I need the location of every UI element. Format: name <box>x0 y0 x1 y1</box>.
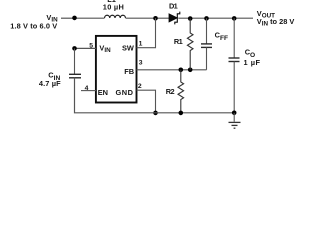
op-amp U1 regulator box <box>96 36 137 103</box>
svg-text:R2: R2 <box>166 87 175 96</box>
capacitor CIN <box>69 74 81 78</box>
svg-text:GND: GND <box>116 88 134 97</box>
svg-text:D1: D1 <box>169 2 178 11</box>
svg-text:10 µH: 10 µH <box>103 3 124 12</box>
capacitor CFF <box>201 18 212 70</box>
junction dot R2 bottom <box>179 111 184 116</box>
junction dot pin5/VIN line <box>72 46 77 51</box>
svg-text:3: 3 <box>139 60 143 67</box>
ground <box>229 113 241 128</box>
wire top rail junction to inductor <box>75 17 105 19</box>
junction dot R1 bottom <box>188 68 193 73</box>
svg-text:4.7 µF: 4.7 µF <box>39 79 61 88</box>
junction dot CFF top <box>204 16 209 21</box>
junction dot R1 top <box>188 16 193 21</box>
svg-text:EN: EN <box>98 88 108 97</box>
wire inductor to diode <box>126 17 170 19</box>
svg-text:1.8 V to 6.0 V: 1.8 V to 6.0 V <box>10 21 57 30</box>
wire CIN to bottom rail corner <box>75 78 235 113</box>
svg-text:1: 1 <box>139 40 143 47</box>
wire VIN label to junction <box>61 17 75 19</box>
svg-text:2: 2 <box>138 83 142 90</box>
resistor R1 <box>187 18 193 69</box>
junction dot SW node <box>153 16 158 21</box>
pin wire 2 (GND) down to bottom rail <box>137 90 156 113</box>
svg-text:R1: R1 <box>174 37 183 46</box>
wire VIN line upper (junction to CIN) <box>74 48 76 74</box>
svg-text:SW: SW <box>122 44 134 53</box>
svg-text:FB: FB <box>124 67 134 76</box>
junction dot R2 tap <box>179 68 184 73</box>
pin wire 1 (SW) <box>137 18 156 48</box>
junction dot CO bottom / ground node <box>232 111 237 116</box>
junction dot VIN node <box>72 16 77 21</box>
pin wire 3 (FB) to divider node <box>137 69 207 71</box>
svg-text:1 µF: 1 µF <box>244 58 261 67</box>
pin wire 5 (VIN) <box>75 47 96 49</box>
junction dot GND/rail <box>153 111 158 116</box>
wire diode to rail end <box>178 17 253 19</box>
inductor L1 <box>105 15 126 18</box>
resistor R2 <box>178 70 184 113</box>
capacitor CO <box>229 18 240 113</box>
diode D1 (schottky) <box>169 12 180 25</box>
junction dot CO top <box>232 16 237 21</box>
pin wire 4 (EN) stub <box>81 90 96 92</box>
